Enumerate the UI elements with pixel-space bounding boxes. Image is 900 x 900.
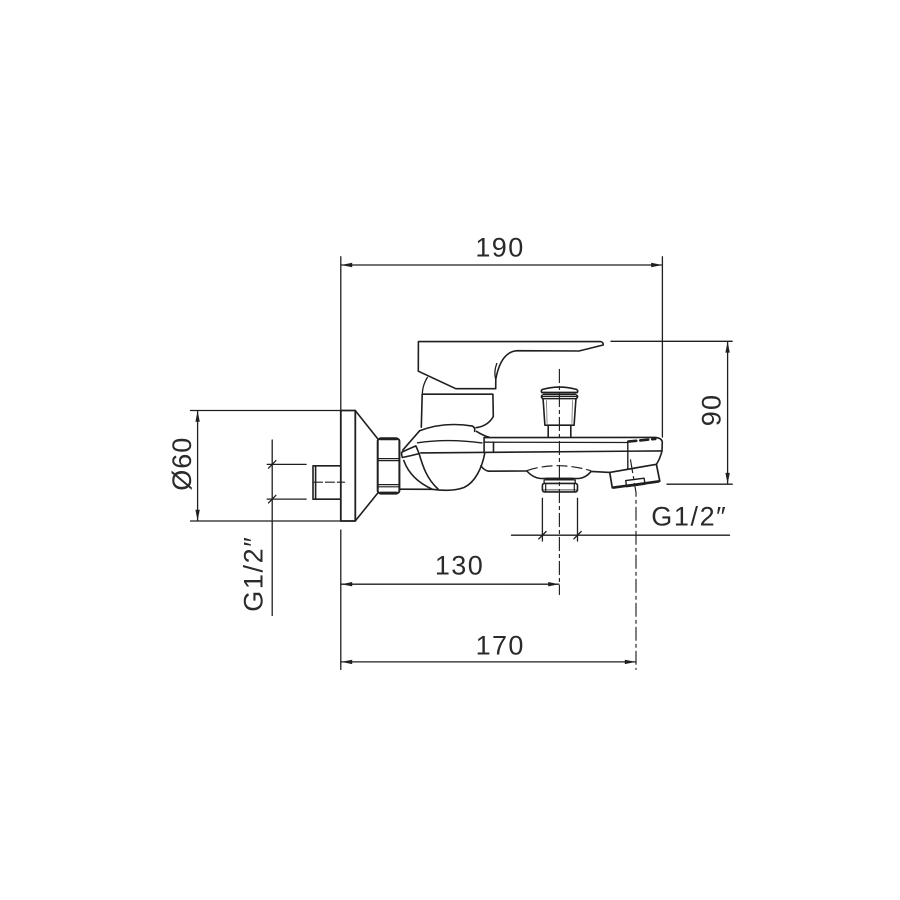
body sphere bottom right (433, 454, 485, 491)
svg-text:G1/2″: G1/2″ (239, 536, 269, 612)
spout outlet (610, 464, 660, 488)
svg-text:90: 90 (697, 394, 727, 426)
outlet centerline (631, 460, 637, 670)
body sphere left outer (404, 461, 433, 490)
aerator (626, 478, 645, 487)
collar ring (402, 446, 420, 458)
under-deck line and skirt (489, 471, 610, 479)
dimension G12 left (267, 440, 306, 616)
dimension G12 right (512, 498, 730, 541)
dimension 170 (341, 530, 636, 670)
wall flange (341, 411, 378, 522)
handle lever (418, 342, 603, 389)
body to underside fillet (481, 466, 489, 471)
svg-text:170: 170 (476, 630, 525, 660)
svg-text:Ø60: Ø60 (167, 437, 197, 491)
cartridge housing (421, 394, 493, 427)
skirt hidden arc (528, 466, 591, 471)
wall nipple (313, 466, 341, 499)
body bottom tangent line (399, 488, 432, 490)
body curve to deck (477, 431, 490, 437)
dimension 190 (341, 257, 663, 437)
spout tip seam (627, 442, 629, 470)
knob and bottom nut centerline (558, 370, 560, 595)
handle neck inner detail (495, 364, 497, 379)
bonnet curve left (422, 377, 427, 394)
svg-text:190: 190 (475, 233, 524, 263)
body sphere left inner contour (419, 454, 438, 489)
svg-text:130: 130 (435, 550, 484, 580)
dimension 90 (611, 341, 732, 484)
spout lip heavy dashes (628, 439, 655, 442)
body curve to cartridge (476, 417, 493, 428)
dimension 130 (341, 582, 559, 586)
dimension D60 (191, 411, 356, 522)
diverter knob (541, 387, 577, 437)
hex nut wall side (378, 439, 400, 493)
body left descending edge (403, 431, 420, 450)
svg-text:G1/2″: G1/2″ (651, 502, 727, 532)
body equator arc (418, 441, 483, 443)
nipple centerline (313, 481, 344, 483)
deck spout arm (421, 437, 663, 464)
bottom nut (542, 478, 577, 492)
body upper bulge (420, 424, 475, 431)
